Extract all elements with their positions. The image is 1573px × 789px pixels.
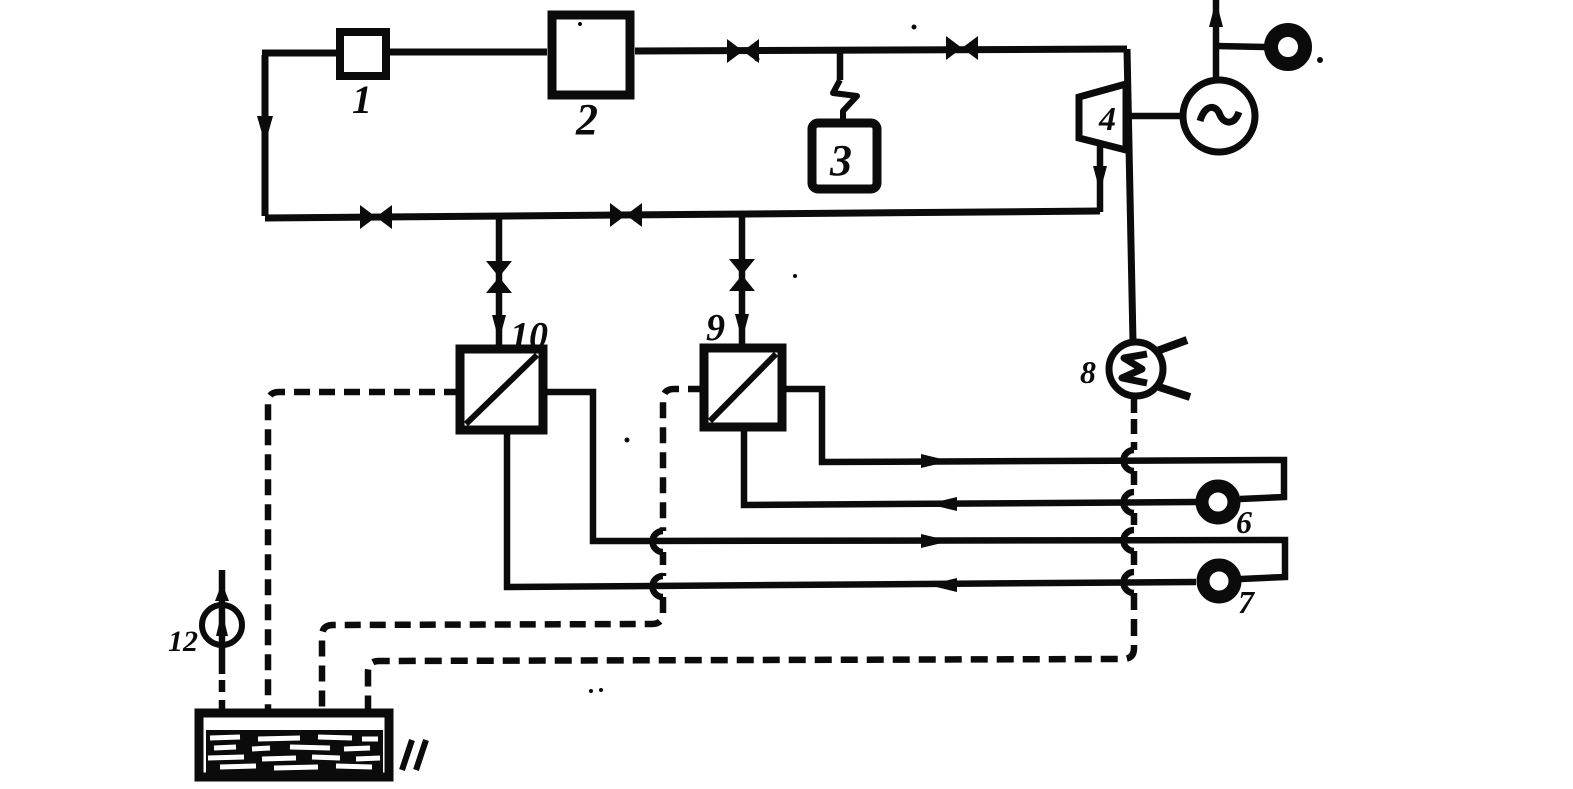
generator circle [1183, 80, 1255, 152]
valve V4 on return line [610, 203, 642, 227]
arrow down above circle 12 [215, 583, 229, 601]
wire box2 to turbine corner [635, 49, 1127, 51]
valve V3 on return line [360, 205, 392, 229]
zigzag flex connection [833, 80, 857, 122]
heater 10 diagonal [466, 355, 537, 424]
wire tap to insulator [1216, 46, 1265, 47]
wire network line 2 (return) from pump 6 to heater 9 bottom [744, 427, 1196, 505]
hop over line 3 [1124, 530, 1135, 551]
dashed seg [1131, 513, 1138, 530]
wire heater 9 out right, down, network line 1 (supply) [782, 389, 1284, 499]
hop over line 4 at x663 [653, 576, 664, 597]
svg-text:7: 7 [1238, 584, 1256, 620]
dashed drain from heater 9 left down with hops to tank [663, 389, 704, 531]
wire stub below HX 8 [1131, 396, 1138, 413]
pump 6 ring [1202, 486, 1234, 518]
box 1 (component 1) [340, 32, 386, 76]
heater 9 box [704, 348, 782, 427]
arrow left on line 2 [928, 497, 957, 511]
tank 11 shell [199, 713, 389, 777]
dashed seg [660, 552, 667, 576]
heater 9 diagonal [710, 354, 776, 421]
insulator ring (donut) [1271, 30, 1305, 64]
arrow down inside circle 12 [216, 611, 228, 636]
wire condensate return line [265, 211, 1100, 218]
box 3 (component 3) [812, 123, 877, 189]
tank 11 water hatch [206, 730, 383, 773]
dashed seg down, left, down to tank [322, 597, 663, 712]
svg-text:8: 8 [1080, 354, 1096, 390]
arrow left on line 4 [928, 578, 957, 592]
valve V6 vertical on branch 9 [729, 259, 755, 291]
hop over line 1 [1124, 450, 1135, 471]
arrow up on top lead [1209, 0, 1223, 27]
turbine 4 [1079, 84, 1126, 150]
arrow right on line 1 [921, 454, 950, 468]
svg-text:12: 12 [168, 625, 198, 658]
wire network line 4 (return) from pump 7 to heater 10 bottom [507, 430, 1196, 587]
svg-text:2: 2 [575, 95, 598, 144]
heater 10 box [460, 349, 543, 430]
wire generator connector [1130, 113, 1183, 120]
svg-text:9: 9 [706, 307, 725, 349]
arrow down on branch 9 [735, 314, 749, 340]
wire main vertical: turbine inlet down to heat exchanger 8 [1127, 49, 1133, 342]
generator tilde [1200, 107, 1239, 122]
wire generator top lead [1213, 0, 1220, 80]
wire turbine exhaust down [1097, 146, 1104, 212]
hop over line 4 [1124, 572, 1135, 593]
svg-text:6: 6 [1236, 504, 1252, 540]
label 11 (two strokes) [402, 740, 426, 770]
dashed drain from HX8 down with hops [1131, 419, 1138, 450]
speck [1317, 57, 1323, 63]
dashed lead from 12 to tank [219, 680, 226, 712]
dashed seg [1131, 471, 1138, 492]
arrow down on exhaust [1093, 166, 1107, 192]
wire extraction branch to heater 10 [496, 217, 503, 349]
dashed seg [1131, 551, 1138, 572]
dashed drain down then left to tank [368, 593, 1134, 712]
box 2 (component 2) [552, 15, 630, 95]
speck dots [755, 57, 760, 62]
svg-text:4: 4 [1098, 101, 1116, 138]
wire left vertical riser [262, 55, 269, 216]
svg-text:3: 3 [829, 136, 852, 185]
svg-text:1: 1 [352, 77, 372, 122]
valve V2 on main steam line [946, 36, 978, 60]
hop over line 3 at x663 [653, 531, 664, 552]
heat exchanger 8 spoke lower [1159, 387, 1190, 397]
wire box1 to box2 [390, 49, 547, 56]
valve V1 on main steam line [727, 39, 759, 63]
dashed drain from heater 10 left to tank [268, 392, 460, 712]
arrow right on line 3 [921, 534, 950, 548]
wire top-left stub to box 1 [262, 50, 337, 57]
wire heater 10 out right, down, network line 3 (supply) [543, 392, 1285, 579]
heat exchanger 8 circle [1109, 342, 1163, 396]
arrow down on branch 10 [492, 315, 506, 341]
wire branch to box 3 [837, 51, 844, 80]
heat exchanger 8 sigma squiggle [1122, 354, 1147, 383]
arrow down on left riser [257, 116, 273, 144]
device 12 circle [202, 605, 242, 645]
hop over line 2 [1124, 492, 1135, 513]
valve V5 vertical on branch 10 [486, 261, 512, 293]
heat exchanger 8 spoke upper [1157, 340, 1187, 351]
wire extraction branch to heater 9 [739, 215, 746, 348]
device 12 upper lead [219, 570, 226, 674]
pump 7 ring [1203, 565, 1235, 597]
